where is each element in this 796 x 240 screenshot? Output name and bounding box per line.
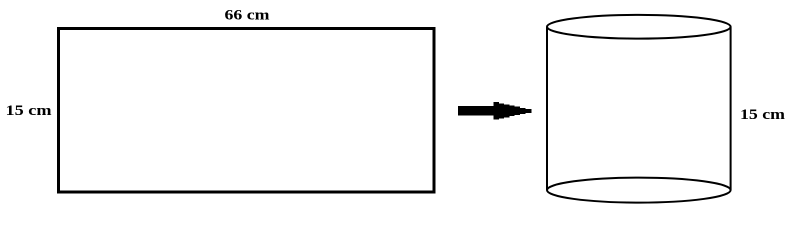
svg-text:15 cm: 15 cm <box>6 103 52 119</box>
svg-text:66 cm: 66 cm <box>225 8 270 24</box>
svg-text:15 cm: 15 cm <box>740 107 785 123</box>
